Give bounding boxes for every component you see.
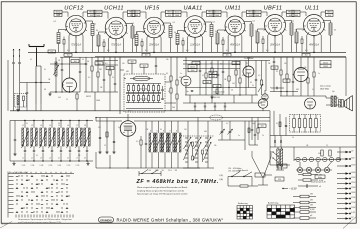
wire pin drop bbox=[201, 37, 203, 52]
coil bank bottom rail bbox=[10, 160, 93, 162]
wire rails bbox=[183, 61, 270, 69]
ground bbox=[16, 108, 19, 112]
wire pin drop bbox=[227, 36, 229, 52]
svg-text:30: 30 bbox=[160, 129, 162, 131]
svg-text:50: 50 bbox=[87, 61, 89, 63]
wire cathode drop bbox=[274, 36, 276, 53]
svg-text:104: 104 bbox=[232, 83, 235, 85]
mains switch bbox=[272, 151, 279, 164]
tube UL11 rating bbox=[309, 43, 319, 46]
svg-text:0,1: 0,1 bbox=[94, 24, 97, 26]
svg-text:1n: 1n bbox=[180, 73, 182, 75]
resistor bbox=[235, 61, 237, 88]
wire pin drop bbox=[306, 35, 308, 52]
node bbox=[234, 52, 236, 54]
ground bbox=[12, 162, 89, 166]
svg-text:2k: 2k bbox=[196, 65, 198, 67]
tube UM11 rating bbox=[230, 43, 240, 46]
above-IF components bbox=[128, 57, 157, 74]
svg-text:L.(A): L.(A) bbox=[219, 178, 223, 181]
svg-text:321.5: 321.5 bbox=[168, 170, 172, 172]
svg-text:28V 0,1A: 28V 0,1A bbox=[269, 43, 280, 46]
svg-text:0,5: 0,5 bbox=[88, 77, 90, 79]
svg-text:25: 25 bbox=[66, 99, 68, 101]
tube diode T6 bbox=[262, 94, 268, 100]
rail bbox=[183, 102, 262, 104]
svg-text:2k: 2k bbox=[26, 123, 28, 125]
svg-text:5 234: 5 234 bbox=[31, 165, 35, 167]
svg-text:5 252: 5 252 bbox=[49, 165, 53, 167]
svg-text:L2: L2 bbox=[31, 125, 33, 127]
wire bbox=[95, 117, 96, 121]
wire bbox=[50, 63, 86, 64]
svg-text:5k: 5k bbox=[220, 64, 222, 66]
wire bbox=[294, 147, 340, 161]
svg-text:UCF12: UCF12 bbox=[64, 6, 84, 12]
wire pin drop bbox=[320, 35, 322, 52]
rail bbox=[96, 120, 270, 122]
svg-text:104: 104 bbox=[172, 107, 175, 109]
wire heater bus bbox=[28, 51, 346, 53]
svg-text:1000: 1000 bbox=[255, 15, 259, 17]
svg-text:2W: 2W bbox=[310, 200, 313, 202]
resistor bbox=[97, 57, 99, 92]
tuning coil bank bbox=[22, 121, 91, 162]
svg-text:L3: L3 bbox=[58, 60, 60, 62]
svg-text:1n: 1n bbox=[318, 73, 320, 75]
svg-text:104: 104 bbox=[328, 15, 331, 17]
svg-text:0,1: 0,1 bbox=[186, 50, 189, 52]
wire bbox=[188, 118, 208, 137]
svg-text:L5: L5 bbox=[58, 125, 60, 127]
svg-text:0,1: 0,1 bbox=[226, 50, 229, 52]
lamp text bbox=[311, 182, 327, 184]
svg-text:1000: 1000 bbox=[175, 15, 179, 17]
volume pot bbox=[258, 61, 263, 96]
tube UAA11 envelope bbox=[183, 16, 206, 40]
label box bbox=[203, 81, 221, 89]
tube UM11 label bbox=[225, 6, 241, 12]
contact row bbox=[139, 170, 161, 177]
wire cathode drop bbox=[115, 39, 117, 53]
wire bbox=[185, 57, 187, 95]
tube UCF12 bias components bbox=[54, 10, 98, 56]
svg-text:0,1: 0,1 bbox=[166, 73, 168, 75]
svg-text:L1: L1 bbox=[22, 125, 24, 127]
svg-text:0,1: 0,1 bbox=[266, 50, 269, 52]
wire B+ rail bbox=[60, 56, 346, 58]
svg-text:5k: 5k bbox=[252, 85, 254, 87]
svg-text:Gemessene Spannungen mit Rö: Gemessene Spannungen mit Röhrenvoltm. Si… bbox=[18, 218, 72, 221]
svg-text:21V 0,1A: 21V 0,1A bbox=[189, 43, 200, 46]
tuning vane bbox=[124, 76, 153, 81]
rectifier row bbox=[294, 157, 341, 161]
wire pin drop bbox=[281, 35, 283, 52]
svg-text:empfang Skala auf geeic: empfang Skala auf geeichte Schwingkreise… bbox=[137, 189, 185, 192]
tube UBF11 rating bbox=[269, 43, 280, 46]
tube UAA11 bias components bbox=[173, 10, 217, 52]
svg-text:50: 50 bbox=[292, 137, 294, 139]
capacitor bbox=[103, 57, 105, 92]
wire bbox=[280, 95, 316, 97]
labels bbox=[86, 61, 108, 102]
svg-text:c3: c3 bbox=[40, 157, 42, 159]
output transformer bbox=[331, 96, 336, 107]
resistor bbox=[91, 57, 93, 92]
svg-text:1W: 1W bbox=[310, 205, 313, 207]
bus label box bbox=[48, 50, 56, 53]
wire bbox=[282, 188, 288, 189]
svg-text:5 225: 5 225 bbox=[22, 165, 26, 167]
node bbox=[115, 52, 117, 54]
svg-text:L7: L7 bbox=[76, 125, 78, 127]
svg-text:104: 104 bbox=[209, 15, 212, 17]
svg-text:5k: 5k bbox=[174, 32, 176, 34]
capacitor bbox=[199, 61, 201, 96]
svg-text:620: 620 bbox=[278, 179, 281, 181]
svg-text:5k: 5k bbox=[215, 31, 217, 33]
svg-text:0,5W: 0,5W bbox=[211, 76, 215, 78]
svg-text:50: 50 bbox=[44, 89, 46, 91]
svg-text:Ausführung: Ausführung bbox=[268, 202, 278, 205]
svg-text:25: 25 bbox=[104, 145, 106, 147]
6.3V note bbox=[289, 187, 297, 191]
wire pin drop bbox=[241, 36, 243, 52]
svg-text:104: 104 bbox=[58, 97, 61, 99]
svg-text:S: S bbox=[163, 130, 164, 132]
tube triode T5 bbox=[181, 76, 191, 88]
svg-text:und Drehspulinstrument geg: und Drehspulinstrument gegen Masse (1%) bbox=[18, 221, 61, 224]
speaker bbox=[345, 96, 353, 112]
wire bbox=[95, 61, 118, 66]
svg-text:104: 104 bbox=[98, 63, 101, 65]
tube UCF12 label bbox=[64, 6, 84, 12]
rail bbox=[270, 88, 298, 92]
tube UCF12 rating bbox=[71, 43, 81, 46]
speaker magnet bbox=[339, 100, 344, 108]
svg-text:L.(B): L.(B) bbox=[219, 175, 223, 177]
svg-text:c5: c5 bbox=[58, 157, 60, 159]
tube UL11 label bbox=[305, 6, 319, 12]
svg-text:104: 104 bbox=[273, 68, 276, 70]
svg-text:c4: c4 bbox=[49, 157, 51, 159]
capacitor bbox=[114, 57, 116, 92]
fold mark bottom-right bbox=[343, 217, 356, 229]
wire bbox=[183, 63, 240, 65]
svg-text:UF15: UF15 bbox=[144, 6, 160, 12]
capacitor bbox=[13, 121, 16, 156]
tube triode T7 bbox=[258, 99, 268, 109]
svg-text:0,1: 0,1 bbox=[276, 123, 278, 125]
svg-text:1000 104: 1000 104 bbox=[213, 97, 220, 99]
tube triode T1 bbox=[63, 78, 77, 92]
svg-text:0,1: 0,1 bbox=[250, 82, 252, 84]
svg-text:0,5W: 0,5W bbox=[310, 209, 315, 211]
switch table 1 bbox=[237, 203, 253, 219]
speaker text bbox=[320, 85, 332, 91]
IF resistor row 1 bbox=[126, 84, 161, 93]
svg-text:UBF11: UBF11 bbox=[264, 6, 283, 12]
components bbox=[280, 57, 315, 96]
label box bbox=[271, 66, 290, 83]
wire bbox=[248, 57, 250, 87]
svg-text:104: 104 bbox=[90, 15, 93, 17]
svg-text:5W: 5W bbox=[310, 194, 313, 196]
svg-text:1W: 1W bbox=[319, 175, 322, 177]
wire right vert bbox=[270, 57, 346, 135]
tube UCH11 bias components bbox=[94, 10, 138, 52]
svg-text:315: 315 bbox=[162, 170, 165, 172]
IF bank sub-labels bbox=[149, 170, 178, 172]
tube triode T4 bbox=[305, 98, 316, 109]
svg-text:5k: 5k bbox=[334, 30, 336, 32]
labels bbox=[44, 60, 75, 91]
small boxes bbox=[192, 62, 240, 66]
small boxes bbox=[209, 71, 217, 78]
tube UBF11 label bbox=[264, 6, 283, 12]
svg-text:30: 30 bbox=[112, 77, 114, 79]
svg-text:0,1: 0,1 bbox=[285, 81, 287, 83]
tube triode T2 bbox=[243, 66, 254, 79]
svg-text:104: 104 bbox=[261, 126, 264, 128]
svg-text:0,2: 0,2 bbox=[226, 123, 228, 125]
wire pin drop bbox=[68, 35, 70, 52]
rail bbox=[270, 135, 356, 137]
trimmers bbox=[220, 121, 233, 140]
pickup switch bbox=[228, 169, 272, 187]
title text bbox=[117, 218, 224, 223]
svg-text:104: 104 bbox=[98, 127, 101, 129]
rail bbox=[270, 146, 356, 148]
svg-text:0,1: 0,1 bbox=[36, 155, 38, 157]
wire pin drop bbox=[267, 35, 269, 52]
coil bank sub-labels bbox=[22, 165, 80, 167]
svg-text:OSC.: OSC. bbox=[57, 14, 63, 16]
svg-text:25V 0,1A: 25V 0,1A bbox=[148, 43, 159, 46]
terminal arrows bbox=[13, 49, 20, 57]
capacitor bbox=[85, 57, 87, 92]
resistor bbox=[140, 136, 142, 168]
wire bbox=[300, 57, 302, 96]
wire bbox=[9, 121, 11, 162]
legend bottom bbox=[293, 194, 316, 220]
PSU dashed box bbox=[290, 115, 321, 133]
tube magic eye bbox=[120, 114, 136, 136]
switch base bbox=[183, 136, 214, 168]
svg-text:0,2: 0,2 bbox=[168, 91, 170, 93]
svg-text:Dyn.Lautspr.: Dyn.Lautspr. bbox=[320, 85, 332, 88]
label box bbox=[320, 61, 331, 69]
label box bbox=[95, 62, 114, 70]
tube pentode T3 bbox=[293, 68, 309, 84]
svg-text:1000: 1000 bbox=[96, 15, 100, 17]
svg-text:0,5: 0,5 bbox=[109, 68, 111, 70]
table ticks bbox=[16, 215, 73, 218]
tube UF15 label bbox=[144, 6, 160, 12]
svg-text:328: 328 bbox=[175, 170, 178, 172]
svg-text:1000: 1000 bbox=[134, 15, 138, 17]
svg-text:1000: 1000 bbox=[205, 82, 209, 84]
svg-text:0,1: 0,1 bbox=[105, 63, 108, 65]
rail bbox=[96, 117, 270, 119]
svg-text:25: 25 bbox=[326, 145, 328, 147]
svg-text:0,1: 0,1 bbox=[173, 22, 176, 24]
wire bbox=[126, 109, 163, 113]
svg-text:30112: 30112 bbox=[86, 96, 91, 98]
svg-text:50p: 50p bbox=[252, 123, 255, 125]
svg-text:104: 104 bbox=[216, 86, 219, 88]
svg-text:Rö a g1 g2 g3 k f s: Rö a g1 g2 g3 k f s a2 g4 bbox=[9, 172, 28, 174]
trap coil bbox=[17, 96, 24, 108]
svg-text:104: 104 bbox=[168, 15, 171, 17]
svg-text:c1: c1 bbox=[22, 157, 24, 159]
svg-text:ZF = 468kHz bzw 10,7MHz.: ZF = 468kHz bzw 10,7MHz. bbox=[136, 179, 219, 185]
svg-text:0,1: 0,1 bbox=[253, 21, 256, 23]
legend top bbox=[298, 173, 323, 188]
svg-text:104: 104 bbox=[318, 153, 321, 155]
wire bbox=[300, 162, 332, 167]
capacitor bbox=[145, 121, 147, 168]
svg-text:50: 50 bbox=[210, 63, 212, 65]
tube UM11 envelope bbox=[224, 16, 246, 38]
caps bbox=[274, 136, 281, 148]
components bbox=[191, 87, 241, 96]
tube UCH11 label bbox=[104, 6, 124, 12]
svg-text:S: S bbox=[150, 130, 151, 132]
wire bbox=[190, 95, 252, 103]
wire pin drop bbox=[160, 38, 162, 53]
svg-text:c2: c2 bbox=[31, 157, 33, 159]
ground bbox=[210, 95, 213, 99]
tube UCF12 envelope bbox=[65, 15, 87, 37]
svg-text:0,1: 0,1 bbox=[54, 21, 57, 23]
svg-text:30112 104: 30112 104 bbox=[139, 89, 147, 91]
svg-text:5k: 5k bbox=[82, 59, 84, 61]
wire bbox=[84, 92, 118, 111]
svg-text:10k: 10k bbox=[214, 145, 217, 147]
wire bbox=[246, 61, 266, 96]
tube UL11 envelope bbox=[303, 15, 326, 38]
wire pin drop bbox=[82, 35, 84, 52]
filter choke bbox=[276, 147, 284, 170]
caps row bbox=[194, 103, 226, 111]
svg-text:0,5: 0,5 bbox=[242, 75, 244, 77]
resistor bbox=[205, 61, 207, 96]
coil labels bbox=[22, 125, 86, 160]
svg-text:c6: c6 bbox=[67, 157, 69, 159]
right cluster bbox=[248, 121, 266, 145]
svg-text:50: 50 bbox=[58, 123, 60, 125]
svg-text:L6: L6 bbox=[67, 125, 69, 127]
wire cathode drop bbox=[153, 38, 155, 53]
wire bbox=[69, 57, 71, 78]
svg-text:302: 302 bbox=[149, 170, 152, 172]
wire cathode drop bbox=[194, 37, 196, 52]
dial drive funnel bbox=[252, 151, 271, 185]
osc coil bbox=[55, 57, 57, 92]
wire bbox=[263, 90, 265, 111]
tube UAA11 label bbox=[183, 6, 202, 12]
svg-text:0,1: 0,1 bbox=[145, 50, 148, 52]
wire AVC rail bbox=[185, 88, 258, 96]
svg-text:1000: 1000 bbox=[294, 15, 298, 17]
svg-text:Bedienung: Bedienung bbox=[238, 203, 248, 205]
label box bbox=[188, 65, 197, 72]
labels bbox=[150, 130, 177, 132]
capacitor bbox=[79, 57, 81, 92]
wire antenna pair bbox=[36, 66, 41, 104]
svg-text:1000: 1000 bbox=[96, 100, 100, 102]
svg-text:UL11: UL11 bbox=[305, 6, 319, 12]
ground bbox=[48, 92, 51, 96]
svg-text:c8: c8 bbox=[84, 157, 86, 159]
antenna bbox=[29, 44, 44, 66]
wire cathode drop bbox=[234, 36, 236, 52]
svg-text:UCH11: UCH11 bbox=[104, 6, 124, 12]
tube UF15 envelope bbox=[143, 17, 165, 40]
nodes bbox=[24, 120, 87, 162]
svg-text:5 270: 5 270 bbox=[67, 165, 71, 167]
svg-text:25: 25 bbox=[246, 63, 248, 65]
tube UBF11 envelope bbox=[264, 15, 287, 38]
wire pin drop bbox=[108, 38, 110, 52]
svg-text:2802 W/d2: 2802 W/d2 bbox=[320, 88, 329, 90]
test point legend bbox=[337, 150, 356, 219]
tube UF15 rating bbox=[148, 43, 159, 46]
wire cathode drop bbox=[75, 36, 77, 53]
wire heater bus 2 bbox=[95, 55, 346, 57]
voltage table bbox=[8, 172, 74, 218]
svg-text:Skala: Skala bbox=[318, 177, 322, 179]
svg-text:0,5: 0,5 bbox=[258, 75, 260, 77]
svg-text:104: 104 bbox=[67, 55, 70, 57]
svg-text:104: 104 bbox=[289, 15, 292, 17]
svg-text:5 243: 5 243 bbox=[40, 165, 44, 167]
IF block dashed box bbox=[124, 74, 165, 112]
svg-text:50p: 50p bbox=[332, 91, 335, 93]
node bbox=[280, 91, 287, 92]
svg-text:1000: 1000 bbox=[215, 15, 219, 17]
resistor bbox=[109, 57, 111, 92]
svg-text:~ 6,3V: ~ 6,3V bbox=[289, 187, 297, 191]
svg-text:13042: 13042 bbox=[323, 66, 328, 68]
wire bbox=[274, 111, 287, 136]
wire bbox=[7, 60, 9, 111]
svg-text:UAA11: UAA11 bbox=[183, 6, 202, 12]
PSU components bbox=[321, 150, 331, 156]
wire ground rail bbox=[10, 110, 200, 112]
lamp box bbox=[315, 175, 325, 179]
tube UCH11 envelope bbox=[104, 17, 127, 41]
wire bbox=[218, 121, 245, 150]
dial lamp row bbox=[296, 167, 332, 173]
svg-text:Geh.Anschl.: Geh.Anschl. bbox=[238, 169, 249, 172]
wire bbox=[316, 96, 339, 105]
fold mark bottom-left bbox=[0, 222, 12, 229]
svg-text:0,1: 0,1 bbox=[30, 59, 32, 61]
wire bbox=[148, 167, 200, 169]
svg-text:L4: L4 bbox=[49, 125, 51, 127]
svg-text:468: 468 bbox=[126, 71, 129, 73]
svg-text:5k: 5k bbox=[96, 30, 98, 32]
svg-text:50p: 50p bbox=[186, 91, 189, 93]
svg-text:25: 25 bbox=[231, 90, 233, 92]
capacitor bbox=[18, 56, 20, 104]
tube UL11 bias components bbox=[292, 10, 336, 56]
band switch assembly bbox=[184, 136, 212, 168]
node bbox=[313, 52, 315, 54]
wire bbox=[50, 91, 80, 92]
